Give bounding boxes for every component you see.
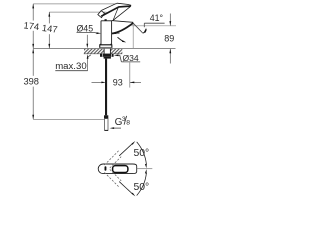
faucet body (side view)	[101, 19, 112, 45]
reference line: lever front tip (147)	[49, 11, 106, 13]
50 degree bottom: arc with arrow	[137, 169, 147, 195]
svg-text:50°: 50°	[133, 148, 149, 159]
hose end nut	[104, 115, 108, 118]
svg-text:41°: 41°	[150, 13, 163, 23]
top view: lever capsule	[98, 164, 137, 174]
faucet base on deck	[100, 44, 112, 48]
label max.30 with deck thickness arrows	[55, 35, 91, 72]
reference line: spout outlet height (89)	[132, 25, 177, 27]
label G 3/8	[110, 116, 131, 129]
dimension 174	[23, 4, 40, 49]
flexible supply hose	[105, 59, 107, 116]
svg-text:Ø34: Ø34	[122, 53, 138, 63]
label Ø45	[76, 24, 119, 34]
svg-text:174: 174	[23, 20, 40, 32]
svg-text:8: 8	[126, 119, 130, 126]
dimension 398	[23, 49, 39, 119]
mounting nut	[100, 54, 114, 59]
svg-text:89: 89	[164, 34, 174, 44]
svg-text:398: 398	[23, 76, 39, 86]
reference line: hose end (398)	[33, 119, 104, 121]
dimension 147	[41, 12, 58, 48]
dashed lever swung up 50	[104, 151, 121, 168]
angle 41 annotation lines	[133, 24, 146, 49]
dimension 89	[164, 14, 174, 64]
50 degree top: extension line with arrow	[119, 141, 135, 156]
faucet spout wedge	[112, 21, 134, 34]
deck cross-section hatching	[84, 49, 123, 54]
water stream arc arrow	[118, 37, 127, 42]
svg-text:50°: 50°	[133, 182, 149, 193]
50 degree bottom: extension line with arrow	[119, 182, 135, 197]
threaded hose tail G3/8	[105, 119, 108, 131]
50 degree top: arc with arrow	[137, 142, 147, 168]
pivot pin dot	[105, 166, 107, 171]
reference line: deck top surface	[33, 48, 175, 50]
dimension 93	[92, 62, 142, 87]
label 41 degrees	[144, 13, 164, 27]
svg-text:93: 93	[113, 78, 123, 88]
reference line: lever top (174)	[33, 3, 116, 5]
threaded shank through deck	[104, 49, 110, 54]
top view centerline	[137, 168, 153, 170]
svg-text:147: 147	[41, 23, 58, 35]
dashed lever swung down 50	[104, 169, 121, 186]
lever window	[113, 166, 128, 173]
faucet lever handle (side view)	[98, 3, 131, 20]
label Ø34	[114, 53, 140, 63]
